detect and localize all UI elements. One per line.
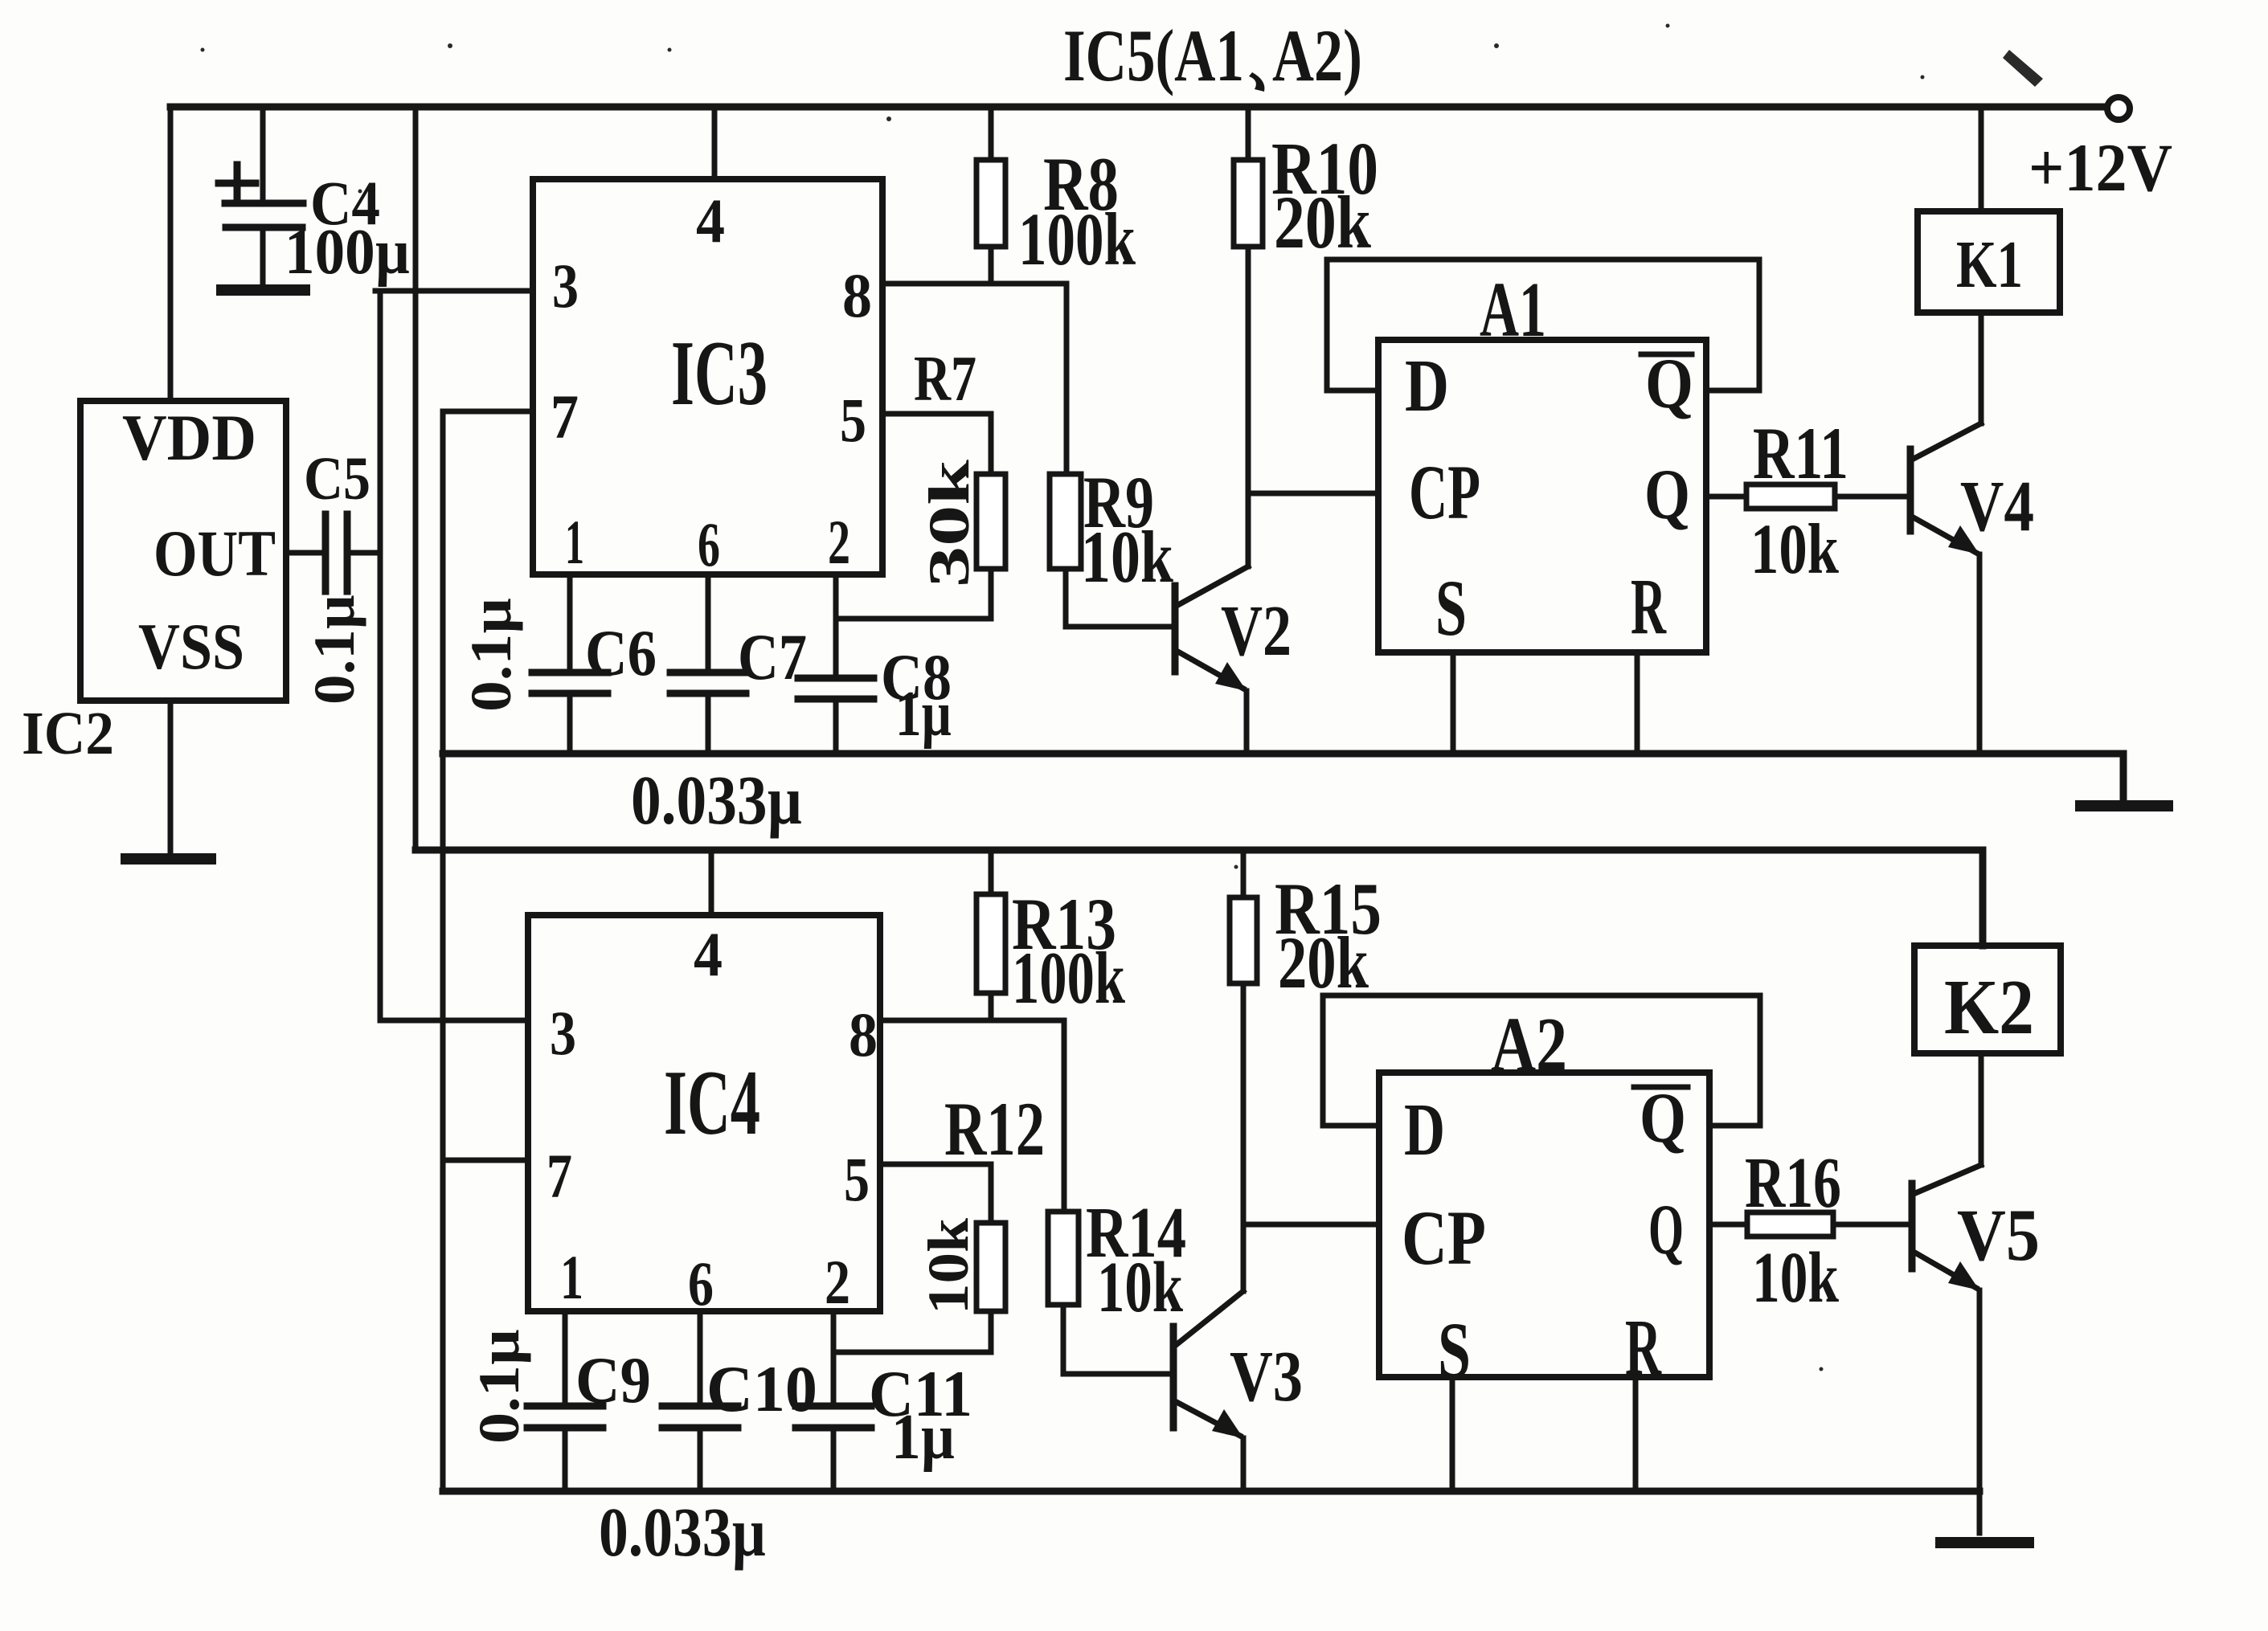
svg-text:0.1µ: 0.1µ xyxy=(467,1329,531,1444)
resistor R9 xyxy=(1050,461,1174,598)
svg-text:Q: Q xyxy=(1648,1191,1684,1269)
svg-text:4: 4 xyxy=(696,186,725,255)
resistor R14 xyxy=(1048,1193,1186,1327)
wire mid ground rail xyxy=(443,754,2123,800)
svg-text:1: 1 xyxy=(560,1242,583,1312)
resistor R13 xyxy=(976,850,1126,1020)
svg-text:0.1µ: 0.1µ xyxy=(459,598,523,712)
wire +12V top rail xyxy=(170,104,2106,111)
IC2 box xyxy=(22,401,286,767)
svg-text:5: 5 xyxy=(844,1144,870,1214)
capacitor C6 xyxy=(459,574,657,754)
relay K2 xyxy=(1914,850,2061,1053)
wire IC3 pin8 to R9 xyxy=(882,284,1066,474)
svg-text:10k: 10k xyxy=(916,1218,980,1314)
ground mid rail xyxy=(2081,800,2168,811)
capacitor C11 xyxy=(796,1311,972,1491)
wire R9 to V2 base xyxy=(1066,569,1172,627)
wire A1 feedback loop xyxy=(1327,260,1759,390)
svg-text:30k: 30k xyxy=(917,460,981,587)
resistor R8 xyxy=(976,107,1136,284)
svg-text:8: 8 xyxy=(849,999,878,1069)
IC3 box xyxy=(533,179,882,579)
svg-text:V5: V5 xyxy=(1957,1194,2040,1276)
svg-text:A2: A2 xyxy=(1491,1002,1567,1089)
capacitor C10 xyxy=(662,1311,817,1491)
ground IC2 xyxy=(126,853,211,865)
svg-text:VDD: VDD xyxy=(122,401,256,474)
resistor R15 xyxy=(1230,850,1382,1004)
wire bottom ground rail xyxy=(443,1488,1979,1495)
wire A1 R to ground rail xyxy=(1635,652,1640,754)
wire IC3 pin5 to R7 xyxy=(882,414,991,474)
svg-text:10k: 10k xyxy=(1750,510,1839,589)
svg-text:3: 3 xyxy=(552,251,579,321)
svg-text:6: 6 xyxy=(698,509,720,579)
wire A1 S to ground rail xyxy=(1451,652,1456,754)
scan specks xyxy=(201,24,2044,1371)
svg-text:R12: R12 xyxy=(944,1086,1045,1171)
wire IC4 pin4 to lower rail xyxy=(709,850,714,915)
wire IC4 pin8 to R14 xyxy=(880,1020,1064,1212)
resistor R7 xyxy=(914,344,1005,587)
flip-flop A2 xyxy=(1379,1002,1709,1395)
wire A2 feedback loop xyxy=(1323,995,1760,1126)
capacitor C4 xyxy=(219,107,410,290)
svg-text:6: 6 xyxy=(688,1249,714,1318)
svg-text:Q: Q xyxy=(1644,456,1690,534)
wire IC4 pin5 to R12 xyxy=(880,1164,991,1223)
svg-text:K2: K2 xyxy=(1944,964,2034,1051)
svg-text:10k: 10k xyxy=(1081,516,1174,598)
svg-text:1: 1 xyxy=(565,507,584,577)
svg-text:IC4: IC4 xyxy=(664,1052,760,1154)
svg-text:VSS: VSS xyxy=(138,610,244,683)
node 0.033u label lower xyxy=(599,1493,766,1571)
wire left vertical to IC2 VDD xyxy=(168,107,174,401)
svg-text:0.033µ: 0.033µ xyxy=(599,1493,766,1571)
wire R10 to CP and V2 collector xyxy=(1246,247,1251,566)
svg-text:100k: 100k xyxy=(1018,198,1136,281)
svg-text:7: 7 xyxy=(547,1141,572,1211)
wire A2 S to bottom rail xyxy=(1450,1377,1455,1491)
wire CP2 xyxy=(1243,1222,1379,1228)
svg-text:2: 2 xyxy=(828,507,850,577)
svg-text:4: 4 xyxy=(694,919,723,989)
svg-text:3: 3 xyxy=(550,998,576,1068)
svg-text:8: 8 xyxy=(842,260,872,330)
svg-text:R7: R7 xyxy=(914,344,976,415)
wire IC2 VSS to ground xyxy=(168,701,174,853)
IC4 box xyxy=(528,915,880,1318)
svg-text:V2: V2 xyxy=(1221,591,1292,671)
svg-text:CP: CP xyxy=(1402,1195,1486,1281)
wire CP1 xyxy=(1248,491,1378,497)
svg-text:10k: 10k xyxy=(1752,1238,1839,1318)
ground V5 emitter xyxy=(1941,1537,2029,1548)
transistor V2 xyxy=(1175,566,1292,754)
svg-text:R16: R16 xyxy=(1745,1143,1841,1223)
capacitor C8 xyxy=(798,574,952,754)
svg-text:A2): A2) xyxy=(1272,14,1362,96)
flip-flop A1 xyxy=(1378,267,1706,652)
svg-text:V3: V3 xyxy=(1230,1337,1303,1416)
wire lower +12V rail xyxy=(416,850,1983,946)
wire pin7 bus vertical xyxy=(443,411,533,1491)
node IC5 top label xyxy=(1063,14,1362,96)
resistor R11 xyxy=(1706,412,1910,589)
svg-text:C5: C5 xyxy=(304,445,370,513)
svg-text:C6: C6 xyxy=(585,616,657,689)
svg-text:2: 2 xyxy=(825,1247,850,1317)
wire trigger bus vertical (C5 to pin3 of IC3 and IC4) xyxy=(375,291,533,1020)
svg-text:IC5(A1: IC5(A1 xyxy=(1063,14,1244,96)
svg-text:OUT: OUT xyxy=(154,517,276,590)
transistor V3 xyxy=(1173,1291,1303,1491)
wire A2 R to bottom rail xyxy=(1633,1377,1639,1491)
svg-text:1µ: 1µ xyxy=(891,1402,955,1473)
svg-text:R: R xyxy=(1625,1302,1662,1392)
svg-text:C9: C9 xyxy=(575,1343,651,1416)
svg-text:S: S xyxy=(1435,563,1467,652)
svg-text:K1: K1 xyxy=(1956,227,2023,302)
resistor R12 xyxy=(916,1086,1045,1314)
resistor R16 xyxy=(1709,1143,1912,1318)
svg-text:1µ: 1µ xyxy=(895,679,952,750)
svg-text:A1: A1 xyxy=(1480,267,1546,354)
svg-text:Q: Q xyxy=(1640,1079,1686,1158)
svg-text:D: D xyxy=(1405,345,1449,427)
svg-text:C7: C7 xyxy=(738,620,807,693)
svg-text:0.1µ: 0.1µ xyxy=(302,595,366,705)
svg-text:R11: R11 xyxy=(1753,412,1848,494)
resistor R10 xyxy=(1234,107,1378,264)
capacitor C9 xyxy=(467,1311,651,1491)
svg-text:C10: C10 xyxy=(706,1352,817,1425)
transistor V5 xyxy=(1912,1053,2040,1533)
svg-text:100µ: 100µ xyxy=(285,217,410,288)
transistor V4 xyxy=(1910,313,2034,754)
svg-text:IC2: IC2 xyxy=(22,700,114,767)
wire R15 to CP and V3 collector xyxy=(1241,983,1247,1291)
wire R14 to V3 base xyxy=(1063,1305,1173,1374)
wire IC3 pin4 to rail xyxy=(712,107,718,179)
node +12V terminal xyxy=(2029,97,2172,206)
capacitor C5 xyxy=(286,445,380,705)
svg-text:0.033µ: 0.033µ xyxy=(631,761,802,839)
wire R12 bottom to pin2 net xyxy=(833,1311,991,1352)
node 0.033u label upper xyxy=(631,761,802,839)
relay K1 xyxy=(1918,107,2060,313)
svg-text:D: D xyxy=(1404,1089,1445,1171)
svg-text:100k: 100k xyxy=(1012,937,1126,1019)
svg-text:IC3: IC3 xyxy=(671,322,768,424)
svg-text:+12V: +12V xyxy=(2029,130,2172,206)
svg-text:7: 7 xyxy=(551,382,579,452)
svg-text:10k: 10k xyxy=(1097,1248,1183,1327)
capacitor C7 xyxy=(670,574,807,754)
svg-text:20k: 20k xyxy=(1274,182,1371,264)
svg-text:V4: V4 xyxy=(1960,467,2034,546)
svg-text:5: 5 xyxy=(840,385,866,455)
svg-text:R: R xyxy=(1631,562,1667,651)
svg-text:20k: 20k xyxy=(1278,922,1369,1004)
wire +12V drop to lower rail xyxy=(413,107,419,850)
wire R7 bottom to pin2 net xyxy=(836,569,991,619)
svg-text:CP: CP xyxy=(1409,449,1480,535)
